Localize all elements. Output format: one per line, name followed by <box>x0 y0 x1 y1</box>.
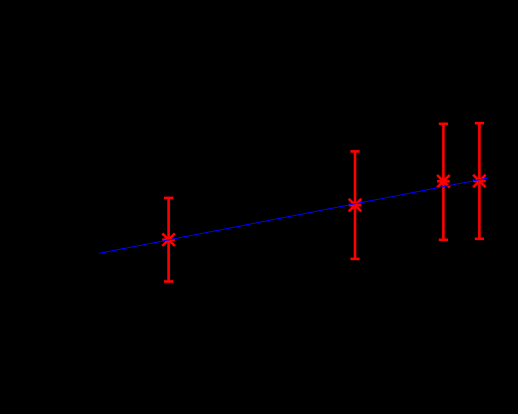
fit line (blue) <box>99 178 489 254</box>
error bar 1 <box>164 198 173 282</box>
error bar 3 <box>439 124 448 240</box>
marker 3 (asterisk) <box>437 175 450 188</box>
marker 4 (asterisk) <box>473 175 486 188</box>
error bar 2 <box>350 151 359 259</box>
marker 2 (asterisk) <box>349 199 362 212</box>
error bar 4 <box>475 123 484 239</box>
marker 1 (asterisk) <box>162 233 175 246</box>
